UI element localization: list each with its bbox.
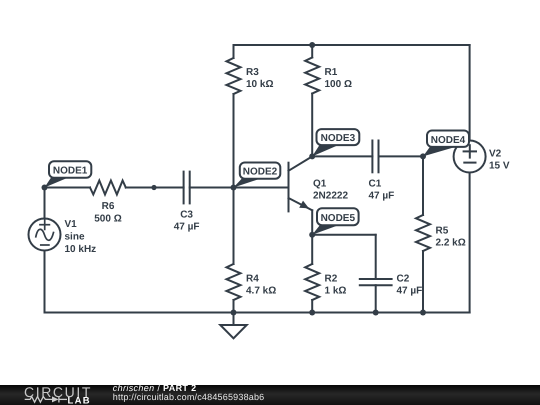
- node label NODE1: [45, 161, 92, 187]
- value label R6: [94, 201, 121, 224]
- wire C2 to bottom rail: [375, 285, 377, 312]
- value label V2: [489, 149, 510, 172]
- svg-text:Q1: Q1: [313, 179, 327, 190]
- resistor R1: [305, 58, 319, 94]
- wire R3 to node2: [233, 94, 235, 188]
- svg-text:NODE5: NODE5: [321, 213, 356, 224]
- wire R4 to bottom rail: [233, 300, 235, 313]
- wire emitter to node5: [311, 210, 313, 235]
- wire R5 to bottom rail: [422, 251, 424, 313]
- svg-text:NODE1: NODE1: [53, 166, 88, 177]
- svg-text:10 kΩ: 10 kΩ: [246, 79, 273, 90]
- wire node4 to R5: [422, 156, 424, 215]
- svg-text:10 kHz: 10 kHz: [65, 244, 97, 255]
- value label R4: [246, 274, 276, 297]
- wire C1 to node4: [379, 155, 424, 157]
- node label NODE2: [234, 163, 281, 188]
- value label V1: [65, 219, 97, 255]
- svg-text:NODE2: NODE2: [243, 167, 278, 178]
- svg-text:2N2222: 2N2222: [313, 191, 348, 202]
- svg-text:4.7 kΩ: 4.7 kΩ: [246, 286, 276, 297]
- wire node3 to C1: [312, 155, 372, 157]
- junction bottom rail R5: [420, 310, 426, 316]
- wire node5 to C2 branch: [312, 234, 376, 236]
- value label Q1: [313, 179, 348, 202]
- wire R3 branch top stub: [233, 45, 235, 58]
- wire right rail lower (V2 bottom to bottom rail): [469, 172, 471, 312]
- node C junction collector (NODE3): [309, 153, 315, 159]
- svg-text:15 V: 15 V: [489, 161, 510, 172]
- capacitor C2: [360, 279, 392, 285]
- node B junction (NODE2): [231, 185, 237, 191]
- voltage source V1 (sine): [29, 219, 61, 251]
- wire right rail upper (to V2 top): [469, 45, 471, 141]
- svg-text:47 µF: 47 µF: [397, 286, 423, 297]
- svg-text:sine: sine: [65, 232, 85, 243]
- svg-text:http://circuitlab.com/c4845659: http://circuitlab.com/c484565938ab6: [113, 392, 265, 402]
- junction bottom rail R4/ground: [231, 310, 237, 316]
- svg-text:R5: R5: [436, 226, 449, 237]
- svg-text:LAB: LAB: [68, 396, 91, 405]
- svg-text:1 kΩ: 1 kΩ: [325, 286, 347, 297]
- wire node1 to V1 top: [44, 188, 46, 219]
- svg-text:R4: R4: [246, 274, 259, 285]
- wire node5 to R2: [311, 235, 313, 264]
- svg-text:R3: R3: [246, 67, 259, 78]
- value label R3: [246, 67, 273, 90]
- wire R6 to C3: [126, 187, 184, 189]
- value label C3: [174, 210, 200, 233]
- svg-text:NODE4: NODE4: [431, 135, 466, 146]
- wire base (node2 to Q1 base): [234, 187, 289, 189]
- svg-text:R2: R2: [325, 274, 338, 285]
- node label NODE4: [423, 131, 469, 157]
- wire R1 to collector node3: [311, 94, 313, 157]
- value label C2: [397, 274, 423, 297]
- svg-text:100 Ω: 100 Ω: [325, 79, 352, 90]
- resistor R4: [227, 264, 241, 300]
- svg-text:47 µF: 47 µF: [174, 222, 200, 233]
- ground: [220, 313, 246, 339]
- svg-text:NODE3: NODE3: [321, 133, 356, 144]
- node E junction emitter (NODE5): [309, 232, 315, 238]
- resistor R3: [227, 58, 241, 94]
- svg-text:V2: V2: [489, 149, 502, 160]
- node label NODE5: [312, 208, 358, 235]
- svg-text:2.2 kΩ: 2.2 kΩ: [436, 238, 466, 249]
- node A junction R6 input (NODE1): [42, 185, 48, 191]
- capacitor C3: [184, 172, 190, 204]
- wire R1 branch top stub: [311, 45, 313, 58]
- svg-text:500 Ω: 500 Ω: [94, 213, 121, 224]
- wire V1 bottom to bottom rail: [44, 250, 46, 312]
- resistor R2: [305, 264, 319, 300]
- svg-text:C2: C2: [397, 274, 410, 285]
- wire C2 branch down: [375, 235, 377, 279]
- svg-text:C3: C3: [180, 210, 193, 221]
- junction top rail R1: [309, 42, 315, 48]
- wire C3 to node2: [190, 187, 234, 189]
- junction bottom rail R2: [309, 310, 315, 316]
- resistor R6: [90, 181, 126, 195]
- wire bottom rail: [45, 312, 470, 314]
- svg-text:V1: V1: [65, 219, 78, 230]
- wire R2 to bottom rail: [311, 300, 313, 313]
- junction R6/C3: [151, 185, 156, 190]
- node D junction output (NODE4): [420, 153, 426, 159]
- value label R2: [325, 274, 347, 297]
- voltage source V2 (DC): [454, 141, 486, 173]
- wire top rail: [234, 44, 470, 46]
- svg-text:R1: R1: [325, 67, 338, 78]
- value label R5: [436, 226, 466, 249]
- svg-text:47 µF: 47 µF: [369, 191, 395, 202]
- footer bar: [0, 385, 540, 405]
- resistor R5: [416, 215, 430, 251]
- logo squiggle (resistor + diode): [25, 396, 67, 402]
- wire node2 to R4: [233, 188, 235, 265]
- node label NODE3: [312, 129, 359, 156]
- junction bottom rail C2: [373, 310, 379, 316]
- value label R1: [325, 67, 352, 90]
- capacitor C1: [372, 141, 378, 173]
- svg-text:R6: R6: [102, 201, 115, 212]
- transistor Q1: [289, 156, 313, 211]
- svg-text:C1: C1: [369, 179, 382, 190]
- value label C1: [369, 179, 395, 202]
- wire node1 to R6: [45, 187, 91, 189]
